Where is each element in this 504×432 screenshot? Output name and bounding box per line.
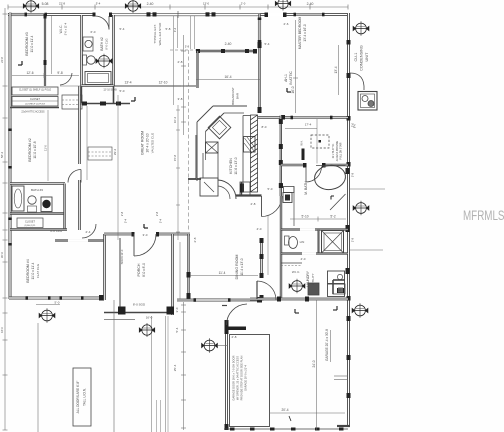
mbath hall wall x281 — [280, 196, 282, 300]
svg-text:13'-4: 13'-4 — [334, 66, 338, 73]
svg-text:9'-8: 9'-8 — [57, 71, 62, 75]
svg-text:22'-8: 22'-8 — [59, 2, 66, 6]
bath2 wall left — [80, 15, 83, 86]
mbath door arc — [305, 167, 307, 182]
wic door arc — [60, 73, 72, 85]
rear wall right y299 — [250, 298, 348, 301]
dim x118 upper — [117, 95, 119, 240]
svg-text:GREAT ROOM: GREAT ROOM — [141, 131, 145, 155]
dim vline bed2b — [86, 106, 88, 180]
dim vline bed2a — [47, 110, 49, 181]
linen dashes — [88, 147, 112, 160]
bath3 washer — [41, 197, 52, 212]
svg-text:29'-4: 29'-4 — [113, 148, 117, 155]
svg-text:PULL DN STAIR: PULL DN STAIR — [340, 142, 343, 159]
apron verticals — [37, 323, 39, 432]
svg-text:BEDROOM #3: BEDROOM #3 — [25, 32, 29, 56]
pantry box — [240, 182, 250, 196]
dim x268 hall — [267, 215, 269, 275]
svg-text:20'-4: 20'-4 — [282, 408, 289, 412]
porch bottom — [104, 312, 174, 314]
svg-text:13'-0: 13'-0 — [203, 2, 210, 6]
svg-text:2'-8: 2'-8 — [155, 211, 159, 216]
svg-text:MFRMLS: MFRMLS — [463, 207, 504, 223]
dimension line top — [8, 6, 348, 8]
svg-text:2'-8: 2'-8 — [351, 237, 355, 242]
svg-text:PORCH: PORCH — [137, 263, 141, 276]
garage left wall — [225, 320, 228, 430]
wh stub — [302, 149, 305, 161]
svg-text:2'-0: 2'-0 — [241, 2, 246, 6]
cabinet box — [200, 178, 218, 196]
svg-text:IN ATTIC: IN ATTIC — [289, 71, 293, 85]
note box all doors — [73, 368, 91, 426]
svg-text:ALL DOORS ARE 6'-8": ALL DOORS ARE 6'-8" — [76, 381, 80, 414]
svg-text:16'-4: 16'-4 — [225, 75, 232, 79]
outer wall left — [9, 13, 12, 299]
svg-text:CLOSET (1) SHELF (1) POLE: CLOSET (1) SHELF (1) POLE — [19, 89, 52, 92]
marker bottomleft — [39, 308, 55, 322]
walkway lines — [151, 316, 153, 432]
step box — [333, 284, 345, 294]
bath3 walls — [10, 212, 65, 214]
counter edge top — [224, 112, 244, 114]
wall y195 — [236, 194, 262, 196]
svg-text:2'-8: 2'-8 — [178, 60, 183, 64]
wall y86 kitchen-side — [114, 85, 197, 87]
bed2 door arc — [68, 170, 81, 183]
master bed left wall — [258, 14, 260, 113]
garage entry arc — [227, 304, 248, 325]
dim x178 — [177, 105, 179, 240]
svg-text:CLOSET: CLOSET — [25, 221, 35, 224]
svg-text:22x54 ATTIC ACCESS: 22x54 ATTIC ACCESS — [21, 111, 45, 114]
svg-text:5'-10: 5'-10 — [302, 215, 309, 219]
outer wall top middle (light band) — [112, 12, 260, 14]
svg-text:KITCHEN: KITCHEN — [229, 158, 233, 174]
svg-text:BATH #2: BATH #2 — [100, 37, 104, 51]
stub x82 — [81, 86, 83, 104]
dim x183 — [183, 35, 185, 135]
svg-text:3'-8: 3'-8 — [178, 97, 183, 101]
svg-text:UTILITY: UTILITY — [311, 273, 315, 284]
kitchen sink X — [206, 142, 219, 153]
bath2 drain marker — [96, 54, 112, 69]
svg-text:2-40: 2-40 — [225, 42, 232, 46]
svg-text:BREAKFAST: BREAKFAST — [231, 87, 235, 105]
svg-text:W/ OPENER. 22 x 54 ATTIC ACCES: W/ OPENER. 22 x 54 ATTIC ACCESS — [236, 356, 240, 400]
svg-text:GARAGE 20'-0 x 21'-4: GARAGE 20'-0 x 21'-4 — [244, 364, 248, 390]
svg-text:5'-4: 5'-4 — [265, 42, 270, 46]
outer wall top right — [260, 13, 349, 16]
marker porch — [139, 323, 154, 337]
svg-text:58'-4: 58'-4 — [0, 151, 4, 158]
svg-text:8'-0 CLG: 8'-0 CLG — [105, 38, 109, 49]
svg-text:BAR: BAR — [236, 92, 240, 99]
dim x316 — [316, 300, 318, 430]
bath3 tub — [12, 186, 24, 211]
hall door leaf — [261, 196, 263, 217]
svg-text:11'-0: 11'-0 — [44, 145, 48, 151]
porch right wall — [171, 234, 174, 315]
bed4 door arc — [82, 224, 96, 238]
svg-text:VAULTED CLG: VAULTED CLG — [151, 132, 155, 153]
svg-text:2'-4: 2'-4 — [86, 230, 91, 234]
hall door arc — [262, 196, 283, 217]
svg-text:4'-0: 4'-0 — [301, 257, 306, 261]
svg-text:W.I.C.: W.I.C. — [59, 25, 63, 34]
dim y275 dining — [190, 275, 258, 277]
closet shelf 1 — [12, 87, 58, 95]
svg-text:10'-4: 10'-4 — [173, 116, 177, 123]
svg-text:5'-0: 5'-0 — [120, 89, 125, 93]
svg-text:LIN: LIN — [300, 240, 305, 244]
svg-text:11'-0 x 11'-4: 11'-0 x 11'-4 — [30, 35, 34, 52]
hall-left wall — [78, 86, 81, 230]
svg-text:5'-8: 5'-8 — [166, 27, 171, 31]
house rear y305 garage — [222, 305, 227, 307]
wc wall y229 — [281, 228, 348, 230]
bath2 tub — [85, 72, 111, 85]
closet below bath3 — [10, 228, 67, 230]
svg-text:4'-0 CLG: 4'-0 CLG — [50, 229, 63, 233]
svg-text:PROVIDE STEP AT DOOR SEE PLAN: PROVIDE STEP AT DOOR SEE PLAN — [240, 356, 244, 401]
dim x183 lower — [183, 302, 185, 430]
svg-text:5'-2: 5'-2 — [330, 215, 335, 219]
svg-text:18: 18 — [337, 288, 341, 292]
dim y79 center — [196, 79, 260, 81]
chase cavity left — [242, 116, 244, 193]
porch post right — [167, 307, 175, 315]
svg-text:UNIT: UNIT — [365, 52, 369, 62]
svg-text:BATH #3: BATH #3 — [31, 188, 43, 192]
pool bath door arc — [256, 281, 258, 299]
svg-text:22'-8: 22'-8 — [0, 57, 4, 63]
dim x295 — [295, 20, 297, 113]
nook left wall — [280, 116, 282, 197]
svg-text:5'-4: 5'-4 — [175, 327, 179, 332]
range — [208, 116, 231, 139]
svg-text:ACCESS PROVIDE: ACCESS PROVIDE — [336, 140, 339, 161]
garage bottom line — [224, 428, 348, 430]
fridge — [244, 137, 256, 153]
svg-text:(1)SH (1)PL: (1)SH (1)PL — [24, 225, 36, 227]
hatched chase — [251, 115, 258, 192]
svg-text:6'-0: 6'-0 — [91, 30, 96, 34]
svg-text:5'-8: 5'-8 — [351, 172, 355, 177]
corner L garage2 — [333, 309, 337, 311]
garage door stub — [227, 327, 246, 331]
svg-text:CLOSET: CLOSET — [30, 98, 40, 101]
dim stubs right — [350, 188, 385, 190]
svg-text:WALL 2x4 STUD: WALL 2x4 STUD — [158, 22, 162, 45]
svg-text:5'-4: 5'-4 — [120, 27, 125, 31]
kitchen top wall — [196, 50, 256, 52]
svg-text:5'-0 x 11'-4: 5'-0 x 11'-4 — [64, 22, 68, 35]
closet shelf dash — [281, 262, 302, 264]
bed3/wic divider — [44, 15, 46, 86]
svg-text:BEDROOM #4: BEDROOM #4 — [26, 259, 30, 283]
marker garage front — [202, 338, 218, 352]
svg-text:FLAT CLG: FLAT CLG — [36, 263, 40, 278]
svg-text:11'-6 x 13'-0: 11'-6 x 13'-0 — [234, 157, 238, 174]
shower corner seat — [330, 194, 346, 210]
svg-text:15'-8: 15'-8 — [173, 154, 177, 161]
dim x338 — [338, 45, 340, 95]
svg-text:11'-4: 11'-4 — [219, 271, 226, 275]
outer wall bottom-left — [9, 297, 104, 300]
svg-text:W.H.: W.H. — [301, 140, 304, 146]
marker right low — [352, 303, 368, 317]
svg-text:12'-10 SLAB: 12'-10 SLAB — [103, 89, 117, 92]
linen closet — [62, 95, 82, 109]
svg-text:11'-0 x 10'-8: 11'-0 x 10'-8 — [33, 141, 37, 158]
bath2 sink — [83, 37, 93, 51]
svg-text:8'-0 SGD: 8'-0 SGD — [133, 303, 146, 307]
wall y165 — [281, 164, 348, 167]
keynote marker top A — [23, 0, 38, 13]
wall y240 — [55, 239, 104, 241]
keynote marker top C — [275, 0, 290, 11]
keynote marker top B — [125, 0, 140, 13]
svg-text:SCRN 11'-0: SCRN 11'-0 — [120, 249, 124, 264]
svg-text:30'-0: 30'-0 — [0, 251, 4, 258]
svg-text:4'-0: 4'-0 — [257, 227, 262, 231]
garden tub — [313, 163, 347, 191]
svg-text:12'-10: 12'-10 — [159, 81, 168, 85]
kitchen left wall low — [196, 135, 198, 179]
closet shelf 2 — [12, 97, 58, 107]
svg-text:3'-4: 3'-4 — [173, 27, 177, 32]
svg-text:5'-4: 5'-4 — [159, 218, 163, 223]
svg-text:GARAGE DOOR 16-0 x 7-0 OH DOOR: GARAGE DOOR 16-0 x 7-0 OH DOOR — [232, 355, 236, 400]
marker CU — [353, 21, 369, 35]
dim y128 — [285, 128, 317, 130]
kitchen left wall — [196, 51, 198, 88]
svg-text:LAUNDRY: LAUNDRY — [306, 270, 310, 287]
wall y117 — [258, 116, 348, 119]
svg-text:5'-0: 5'-0 — [268, 187, 273, 191]
dim x188 dashed — [188, 50, 190, 232]
dim y75 — [12, 75, 79, 77]
svg-text:13'-4 x 16'-0: 13'-4 x 16'-0 — [303, 24, 307, 42]
corner L marks — [131, 100, 135, 102]
svg-text:3'-0: 3'-0 — [143, 233, 148, 237]
svg-text:5'-0: 5'-0 — [55, 301, 60, 305]
svg-text:TYPICAL EXT.: TYPICAL EXT. — [153, 24, 157, 44]
closet bottom wall — [10, 107, 59, 109]
svg-text:12'-6: 12'-6 — [27, 71, 34, 75]
front door — [133, 234, 135, 256]
svg-text:(1) SHELF (1) POLE: (1) SHELF (1) POLE — [25, 104, 46, 106]
svg-text:5'-4: 5'-4 — [96, 2, 101, 6]
stub x114 — [113, 86, 115, 104]
svg-text:8'-0: 8'-0 — [262, 125, 267, 129]
svg-text:2'-8: 2'-8 — [120, 211, 124, 216]
dining east wall — [260, 238, 263, 300]
svg-text:2-40: 2-40 — [307, 2, 314, 6]
svg-text:M. BATH: M. BATH — [304, 181, 308, 195]
dim y413 — [270, 412, 346, 414]
svg-text:W.I.C.: W.I.C. — [292, 270, 300, 274]
curved bar end — [218, 180, 236, 199]
svg-text:3'-0: 3'-0 — [175, 307, 179, 312]
svg-text:2'-8: 2'-8 — [232, 335, 237, 339]
dining rear wall — [177, 299, 262, 302]
conduit curve — [350, 73, 364, 90]
dim left vertical — [4, 8, 6, 430]
svg-text:2'-8: 2'-8 — [251, 202, 256, 206]
hall chase boxes — [284, 187, 295, 193]
wall y179 stub — [188, 178, 201, 180]
laundry washer — [328, 271, 345, 284]
porch post left — [118, 307, 126, 315]
svg-text:5-08: 5-08 — [42, 2, 49, 6]
wall x318 — [318, 230, 320, 254]
bath2 door arc — [95, 16, 109, 30]
marker right mid — [353, 201, 369, 215]
svg-text:16'-0: 16'-0 — [291, 86, 295, 93]
wh platform — [308, 283, 319, 295]
front wall y234 — [104, 233, 190, 236]
svg-text:AH-1: AH-1 — [284, 74, 288, 82]
marker closet — [289, 279, 305, 293]
corner L garage1 — [295, 312, 299, 314]
svg-text:5'-4: 5'-4 — [124, 218, 128, 223]
shower — [322, 231, 344, 254]
cabinet dashed — [170, 49, 196, 51]
svg-text:MASTER BEDROOM: MASTER BEDROOM — [298, 17, 302, 50]
dim x330 garage — [330, 330, 332, 362]
svg-text:2'-6: 2'-6 — [284, 22, 289, 26]
bath2 bottom wall — [82, 84, 114, 87]
dim y304 — [36, 304, 60, 306]
hall wall x104 — [103, 234, 106, 300]
svg-text:8'-0 x 8'-0: 8'-0 x 8'-0 — [142, 263, 146, 277]
bath3 sink — [28, 196, 36, 204]
svg-text:11'-4 x 13'-0: 11'-4 x 13'-0 — [240, 258, 244, 275]
kitchen counter diag — [197, 106, 213, 122]
porch steps — [104, 319, 135, 321]
svg-text:11'-0 x 11'-4: 11'-0 x 11'-4 — [31, 262, 35, 279]
svg-text:CONDENSING: CONDENSING — [360, 45, 364, 71]
dining left wall — [187, 234, 189, 300]
hall south wall — [82, 103, 130, 105]
outer wall right — [347, 13, 350, 426]
wc toilet — [285, 236, 290, 245]
svg-text:DINING ROOM: DINING ROOM — [235, 255, 239, 280]
svg-text:GARAGE 20'-4 x 30'-8: GARAGE 20'-4 x 30'-8 — [325, 329, 329, 361]
svg-text:17'-4: 17'-4 — [305, 123, 312, 127]
wall y253 — [281, 252, 348, 254]
dim y86 long — [60, 85, 82, 87]
svg-text:25'-4: 25'-4 — [173, 364, 177, 371]
svg-text:2-40: 2-40 — [147, 2, 154, 6]
garage inner rect — [230, 335, 270, 427]
svg-text:CU-1: CU-1 — [354, 53, 358, 62]
electrical panel — [358, 92, 377, 111]
corner L bed3 — [18, 64, 22, 66]
bath2 wall right — [112, 15, 115, 86]
svg-text:13'-4: 13'-4 — [125, 81, 132, 85]
svg-text:BEDROOM #2: BEDROOM #2 — [28, 138, 32, 162]
svg-text:16'-0: 16'-0 — [0, 327, 4, 333]
svg-text:3'-0: 3'-0 — [351, 122, 355, 127]
svg-text:16'-4 x 20'-10: 16'-4 x 20'-10 — [146, 133, 150, 152]
bed3/bed2 divider — [10, 182, 65, 185]
svg-text:22 x 54 ATTIC: 22 x 54 ATTIC — [332, 143, 335, 158]
svg-text:5'-8: 5'-8 — [185, 45, 190, 49]
counter band — [202, 153, 204, 178]
bath2 toilet — [83, 55, 87, 65]
laundry dryer — [328, 284, 345, 297]
svg-text:24'-0: 24'-0 — [312, 360, 316, 367]
svg-text:TALL U.O.N.: TALL U.O.N. — [83, 388, 87, 406]
svg-text:2'-8: 2'-8 — [193, 237, 197, 242]
dim vline bed3 — [51, 16, 53, 74]
svg-text:16'-0: 16'-0 — [146, 316, 153, 320]
attic access dashed — [311, 135, 329, 148]
dim y219 mbath — [290, 218, 346, 220]
outer wall top left — [8, 13, 110, 16]
dim x317 — [316, 119, 318, 165]
corridor thin pairs — [173, 16, 175, 105]
porch screen left — [119, 238, 121, 313]
